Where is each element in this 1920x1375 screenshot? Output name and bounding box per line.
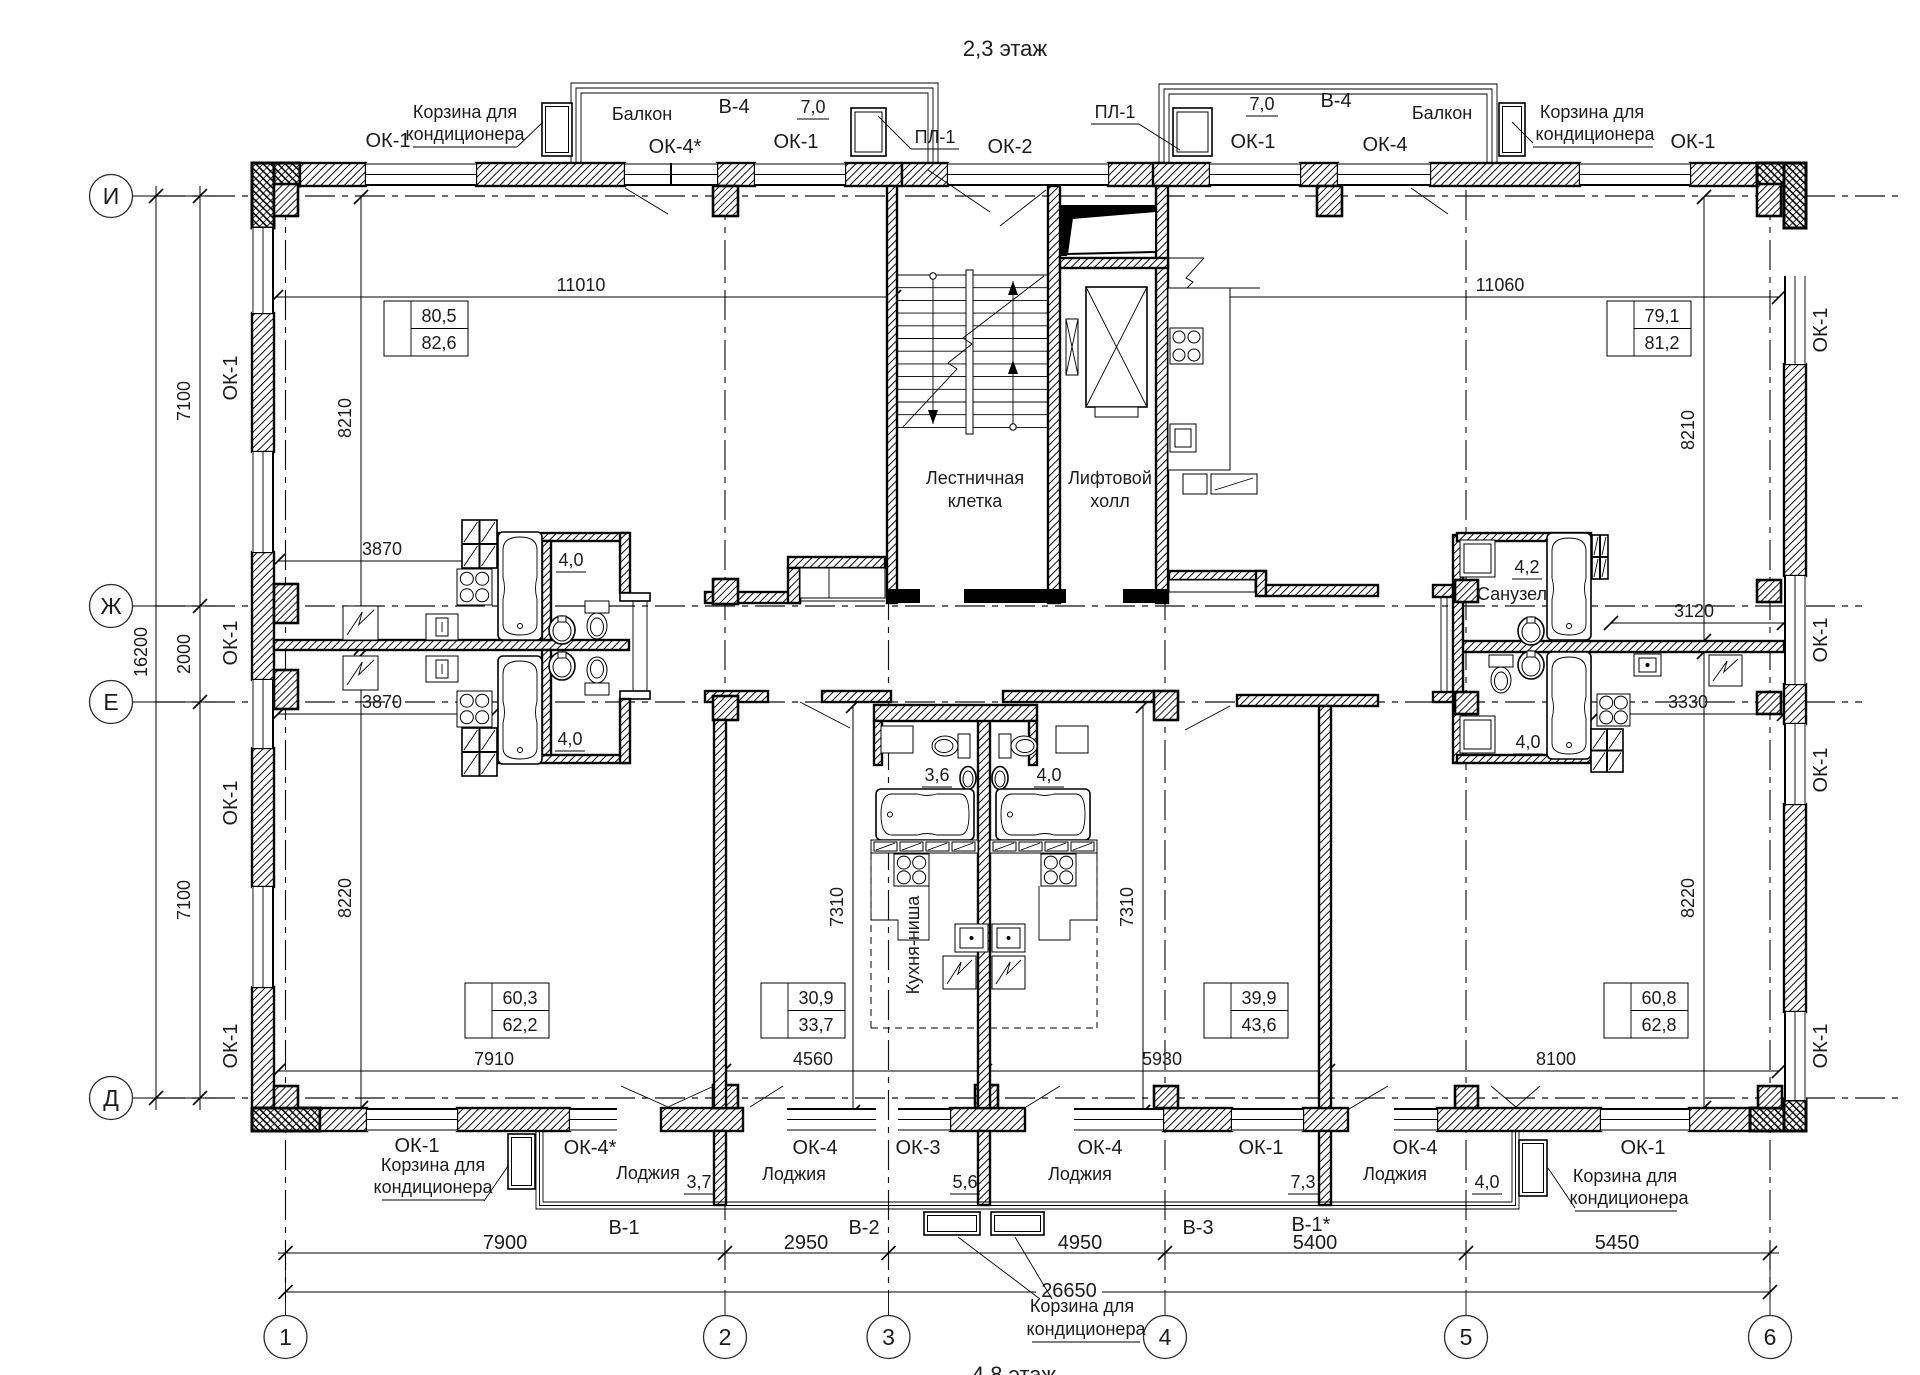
shower tray upper right	[1460, 540, 1495, 577]
opening mark bottom right of axis3	[1026, 1086, 1060, 1107]
left cluster top thin wall	[498, 533, 629, 541]
washbasin upper left	[549, 616, 575, 644]
dim line 7910/4560/5930/8100	[278, 1070, 1779, 1072]
balcony top-right outline	[1159, 84, 1497, 163]
staircase break line	[902, 276, 1044, 428]
svg-text:Кухня-ниша: Кухня-ниша	[903, 895, 923, 995]
counter band under baths right	[990, 840, 1097, 853]
svg-text:Лоджия: Лоджия	[1048, 1164, 1112, 1184]
leader basket bottom-right	[1548, 1168, 1575, 1208]
svg-text:60,8: 60,8	[1641, 988, 1676, 1008]
right outer wall band	[1784, 163, 1806, 228]
axis line 5 (vertical)	[1465, 190, 1467, 1290]
svg-text:ОК-4*: ОК-4*	[564, 1137, 617, 1159]
kitchen sink center-right	[992, 924, 1025, 952]
axis circle Е	[133, 701, 157, 703]
svg-text:ОК-1: ОК-1	[1810, 308, 1832, 353]
area stamp 39,9/43,6	[1204, 983, 1288, 1038]
svg-text:ОК-1: ОК-1	[1671, 131, 1716, 153]
svg-text:В-2: В-2	[848, 1217, 879, 1239]
svg-text:4,0: 4,0	[1474, 1172, 1499, 1192]
kitchen cabinet small	[1183, 474, 1207, 494]
dim 11060 line	[1163, 296, 1779, 298]
svg-text:ОК-4: ОК-4	[1363, 134, 1408, 156]
divider wall center loggia part	[978, 1131, 990, 1205]
svg-text:кондиционера: кондиционера	[1027, 1319, 1147, 1339]
svg-text:Санузел: Санузел	[1477, 584, 1547, 604]
window OK-1 bottom-right	[1601, 1108, 1689, 1131]
hall pilaster axis4 E	[1154, 691, 1178, 720]
door swing E right	[1185, 706, 1230, 730]
right cluster pilaster Zh	[1455, 580, 1478, 602]
kitchen sink right apartment	[1170, 424, 1196, 452]
dimension chain left: 16200 line	[155, 186, 157, 1110]
svg-text:7310: 7310	[827, 887, 847, 927]
svg-text:клетка: клетка	[948, 491, 1004, 511]
svg-text:Д: Д	[103, 1085, 119, 1111]
kitchen niche dashed boundary right	[1096, 854, 1098, 1028]
svg-text:3: 3	[882, 1324, 895, 1350]
left cluster bath wall top	[542, 541, 551, 640]
opening mark below left balcony end	[928, 170, 990, 212]
svg-text:Лоджия: Лоджия	[1363, 1164, 1427, 1184]
svg-text:И: И	[103, 183, 120, 209]
right cluster pilaster E	[1455, 692, 1478, 714]
axis line 3 (vertical)	[888, 190, 890, 1290]
window OK-1 right wall 1	[1784, 276, 1806, 364]
axis line D	[155, 1097, 1898, 1099]
kitchen cabinets lower left	[462, 728, 497, 776]
hall wall E right segment 2	[1237, 695, 1378, 706]
svg-text:Балкон: Балкон	[612, 104, 672, 124]
svg-text:8210: 8210	[335, 398, 355, 438]
axis line Zh	[155, 605, 1862, 607]
cabinets lower right	[1591, 729, 1623, 772]
bathtub upper left	[498, 532, 542, 640]
svg-text:3870: 3870	[362, 539, 402, 559]
svg-text:ОК-1: ОК-1	[220, 1024, 242, 1069]
elevator shaft top wedge	[1061, 205, 1156, 256]
toilet right cluster	[1489, 655, 1513, 667]
opening mark bottom axis2 V-left	[621, 1086, 668, 1107]
svg-text:Лоджия: Лоджия	[762, 1164, 826, 1184]
svg-text:79,1: 79,1	[1644, 306, 1679, 326]
svg-text:8220: 8220	[335, 878, 355, 918]
svg-text:16200: 16200	[131, 627, 151, 677]
window OK-1 under left balcony	[755, 163, 845, 186]
left cluster right wall cap bottom	[620, 691, 650, 699]
window OK-1 bottom center-right	[1232, 1108, 1303, 1131]
stove center-left	[894, 854, 929, 886]
svg-text:ОК-2: ОК-2	[988, 136, 1033, 158]
fridge right cluster	[1709, 655, 1742, 686]
fridge center-right	[992, 956, 1025, 989]
right cluster door jamb	[1440, 597, 1442, 691]
leader PL-1 right	[1139, 124, 1180, 150]
pilaster axis2 top	[713, 186, 738, 216]
svg-text:ОК-1: ОК-1	[1810, 748, 1832, 793]
central wall right (Zh-E)	[1457, 641, 1784, 652]
air-conditioner basket box top-left	[542, 103, 572, 156]
window OK-4 bottom 3	[1074, 1108, 1163, 1131]
right cluster bottom thin wall	[1457, 755, 1591, 763]
bathtub center-left	[876, 789, 974, 840]
air-conditioner basket below loggia 2	[991, 1212, 1044, 1235]
svg-text:62,8: 62,8	[1641, 1015, 1676, 1035]
shower tray center-right	[1056, 726, 1088, 753]
svg-text:4,2: 4,2	[1514, 557, 1539, 577]
window OK-1 left wall 2	[252, 452, 274, 552]
counter center-right	[1039, 853, 1097, 940]
kitchen cabinets upper left	[462, 520, 497, 568]
left outer wall band	[252, 163, 274, 228]
svg-text:Корзина для: Корзина для	[413, 102, 517, 122]
svg-text:7100: 7100	[174, 381, 194, 421]
svg-text:ОК-4: ОК-4	[1078, 1137, 1123, 1159]
svg-text:ОК-1: ОК-1	[220, 781, 242, 826]
window OK-1 left wall 3	[252, 680, 274, 748]
svg-text:ОК-1: ОК-1	[774, 131, 819, 153]
svg-text:80,5: 80,5	[421, 306, 456, 326]
svg-text:4950: 4950	[1058, 1232, 1103, 1254]
center cluster right return	[1029, 721, 1037, 765]
svg-text:60,3: 60,3	[502, 988, 537, 1008]
PL-1 slab box left	[851, 108, 886, 156]
hall wall right upper (Zh)	[1169, 571, 1266, 580]
counter center-left	[871, 853, 929, 940]
left cluster right wall bottom	[620, 699, 630, 763]
svg-text:8210: 8210	[1678, 410, 1698, 450]
hall wall E left segment 2	[822, 691, 891, 702]
svg-text:3,7: 3,7	[686, 1172, 711, 1192]
svg-text:Корзина для: Корзина для	[1540, 102, 1644, 122]
svg-text:11010: 11010	[557, 275, 606, 295]
leader to basket top-right	[1512, 122, 1533, 143]
svg-text:ОК-1: ОК-1	[395, 1135, 440, 1157]
svg-text:39,9: 39,9	[1241, 988, 1276, 1008]
svg-text:2,3 этаж: 2,3 этаж	[963, 36, 1048, 61]
pilaster top right-center	[1317, 186, 1342, 216]
svg-text:ОК-4: ОК-4	[793, 1137, 838, 1159]
area stamp 30,9/33,7	[761, 983, 845, 1038]
window OK-2 top-center	[948, 163, 1108, 186]
svg-text:8220: 8220	[1678, 878, 1698, 918]
left cluster bath wall bottom	[542, 650, 551, 755]
wall stub right cluster E	[1433, 692, 1457, 702]
washbasin center-right	[992, 767, 1008, 790]
divider wall axis2 loggia part	[714, 1131, 726, 1205]
svg-text:3330: 3330	[1668, 692, 1708, 712]
elevator car	[1086, 287, 1147, 407]
dim 3870 upper	[278, 560, 493, 562]
right cluster top thin wall	[1457, 533, 1591, 541]
svg-text:7100: 7100	[174, 880, 194, 920]
svg-text:кондиционера: кондиционера	[1536, 124, 1656, 144]
svg-text:В-3: В-3	[1182, 1217, 1213, 1239]
svg-text:8100: 8100	[1536, 1049, 1576, 1069]
svg-text:Лестничная: Лестничная	[926, 468, 1024, 488]
bathtub center-right	[996, 789, 1090, 840]
stove center-right	[1041, 854, 1076, 886]
balcony top-left outline	[571, 83, 938, 163]
svg-text:2: 2	[719, 1324, 732, 1350]
window OK-4 top-right	[1338, 163, 1430, 186]
svg-text:ОК-1: ОК-1	[1810, 1024, 1832, 1069]
air-conditioner basket bottom-left	[508, 1134, 535, 1189]
right cluster left wall	[1453, 535, 1463, 763]
svg-text:3870: 3870	[362, 692, 402, 712]
kitchen counter right of elevator	[1168, 257, 1204, 259]
svg-text:62,2: 62,2	[502, 1015, 537, 1035]
svg-text:В-4: В-4	[718, 96, 749, 118]
svg-text:Лифтовой: Лифтовой	[1068, 468, 1152, 488]
area stamp 60,8/62,8	[1604, 983, 1688, 1038]
svg-text:1: 1	[279, 1324, 292, 1350]
washing machine lower	[426, 656, 458, 682]
svg-text:В-1: В-1	[608, 1217, 639, 1239]
svg-text:кондиционера: кондиционера	[1570, 1188, 1690, 1208]
svg-text:кондиционера: кондиционера	[374, 1177, 494, 1197]
air-conditioner basket bottom-right	[1519, 1140, 1547, 1196]
hall wall E left segment 1	[705, 691, 768, 702]
dimension chain bottom: 7900/2950/4950/5400/5450	[278, 1252, 1779, 1254]
window OK-4* top	[625, 163, 717, 186]
staircase flight arrow down	[930, 273, 936, 279]
dim 3120	[1611, 622, 1784, 624]
area stamp 80,5/82,6	[384, 301, 468, 356]
area stamp 60,3/62,2	[465, 983, 549, 1038]
left cluster door jamb	[632, 601, 634, 691]
fridge lower left apartment	[343, 656, 378, 690]
window OK-4* bottom	[570, 1108, 617, 1131]
svg-text:ОК-3: ОК-3	[896, 1137, 941, 1159]
hall wall right lower (Zh)	[1266, 585, 1378, 596]
staircase treads	[897, 275, 1048, 427]
svg-text:2950: 2950	[784, 1232, 829, 1254]
leader to basket top-left	[517, 122, 543, 147]
opening mark top right balcony	[1411, 188, 1448, 214]
shower tray center-left	[881, 726, 913, 753]
washbasin center-left	[960, 767, 976, 790]
divider wall center (V-2/V-3)	[978, 719, 990, 1108]
staircase center rail	[966, 270, 973, 434]
svg-text:7,3: 7,3	[1290, 1172, 1315, 1192]
svg-text:5: 5	[1460, 1324, 1473, 1350]
svg-text:4,0: 4,0	[1036, 765, 1061, 785]
bathtub upper right	[1547, 533, 1591, 640]
bathtub lower right	[1547, 652, 1591, 759]
svg-text:5450: 5450	[1595, 1232, 1640, 1254]
axis line E	[155, 701, 1862, 703]
dimension chain bottom: 26650	[286, 1291, 1037, 1293]
washing machine upper	[426, 614, 458, 640]
svg-text:7310: 7310	[1117, 887, 1137, 927]
leader basket bottom-left	[484, 1166, 508, 1201]
svg-text:5930: 5930	[1142, 1049, 1182, 1069]
svg-text:ОК-4: ОК-4	[1393, 1137, 1438, 1159]
axis circle И	[133, 195, 157, 197]
vent shaft left wall	[788, 568, 800, 603]
staircase bottom wall segments	[887, 589, 920, 603]
pilaster axis2 bottom	[713, 1085, 738, 1108]
kitchen niche dashed boundary left	[870, 854, 872, 1028]
pilaster right wall E	[1757, 692, 1781, 714]
loggia outer boundary	[536, 1131, 1519, 1209]
center cluster top wall	[874, 705, 1037, 721]
svg-text:ОК-1: ОК-1	[1621, 1137, 1666, 1159]
svg-text:ПЛ-1: ПЛ-1	[1095, 102, 1136, 122]
window OK-1 right wall 2	[1784, 576, 1806, 684]
axis circle 2	[704, 1316, 747, 1359]
svg-text:7,0: 7,0	[1249, 94, 1274, 114]
pilaster axis3 bottom	[975, 1085, 998, 1108]
axis circle Ж	[133, 605, 157, 607]
hall wall E right segment 1	[1003, 691, 1154, 702]
door swing E left	[800, 702, 850, 728]
window OK-4 bottom 2	[787, 1108, 876, 1131]
dim 8220 left	[360, 655, 362, 1108]
divider wall axis2	[714, 720, 726, 1108]
bathtub lower left	[498, 656, 542, 764]
hall wall right step	[1256, 571, 1266, 596]
elevator car door	[1095, 407, 1138, 417]
svg-text:Е: Е	[103, 689, 118, 715]
window OK-1 right wall 3	[1784, 724, 1806, 804]
axis line 6 (vertical)	[1769, 190, 1771, 1290]
svg-text:30,9: 30,9	[798, 988, 833, 1008]
pilaster bottom-left corner	[274, 1086, 298, 1108]
kitchen sink right cluster	[1634, 654, 1661, 676]
hall pilaster axis2 Zh	[713, 579, 738, 604]
svg-text:Лоджия: Лоджия	[616, 1163, 680, 1183]
window OK-1 bottom-left	[367, 1108, 457, 1131]
top-right corner pilaster	[1757, 184, 1781, 216]
toilet center-left	[932, 734, 970, 758]
svg-text:7900: 7900	[483, 1232, 528, 1254]
pilaster axis4 bottom	[1154, 1086, 1178, 1108]
svg-text:4560: 4560	[793, 1049, 833, 1069]
svg-text:ПЛ-1: ПЛ-1	[915, 127, 956, 147]
svg-text:4,0: 4,0	[558, 550, 583, 570]
axis circle 3	[867, 1316, 910, 1359]
svg-text:3120: 3120	[1674, 601, 1714, 621]
axis line 1 (vertical)	[285, 190, 287, 1290]
axis line 4 (vertical)	[1164, 190, 1166, 1290]
svg-text:6: 6	[1764, 1324, 1777, 1350]
opening mark top-left	[625, 188, 668, 214]
dim 8210 left	[360, 197, 362, 648]
axis circle 4	[1144, 1316, 1187, 1359]
washbasin lower right	[1518, 651, 1544, 679]
elevator right wall	[1156, 186, 1168, 603]
svg-text:В-1*: В-1*	[1292, 1214, 1331, 1236]
pilaster right wall Zh	[1757, 580, 1781, 602]
svg-text:81,2: 81,2	[1644, 333, 1679, 353]
svg-text:кондиционера: кондиционера	[406, 124, 526, 144]
hall wall left (Zh)	[705, 592, 800, 603]
PL-1 slab box right	[1173, 108, 1212, 156]
window OK-3 bottom	[898, 1108, 950, 1131]
top-left corner pilaster	[274, 184, 298, 216]
axis line 2 (vertical)	[724, 190, 726, 1290]
stove upper left apartment	[457, 569, 492, 605]
washbasin upper right	[1518, 617, 1544, 645]
svg-text:4: 4	[1159, 1324, 1172, 1350]
dim 3330	[1597, 713, 1784, 715]
stove lower left apartment	[457, 691, 492, 727]
pilaster axis5 bottom	[1455, 1086, 1478, 1108]
svg-text:ОК-1: ОК-1	[220, 621, 242, 666]
dim 8220 right	[1703, 652, 1705, 1108]
svg-text:Корзина для: Корзина для	[1030, 1296, 1134, 1316]
wall stub right cluster Zh	[1433, 585, 1457, 597]
opening mark bottom center	[750, 1086, 783, 1107]
kitchen sink center-left	[955, 924, 988, 952]
svg-text:Корзина для: Корзина для	[381, 1155, 485, 1175]
leader PL-1 left	[878, 116, 911, 149]
top outer wall band	[252, 163, 300, 186]
divider wall V-3/V-1* loggia part	[1319, 1131, 1331, 1205]
cabinets right of upper bath	[1592, 535, 1608, 579]
window OK-1 top-left	[366, 163, 476, 186]
window OK-1 left wall 1	[252, 228, 274, 313]
window OK-4 bottom 4	[1394, 1108, 1437, 1131]
svg-text:ОК-4*: ОК-4*	[649, 136, 702, 158]
stove right apartment	[1170, 328, 1203, 364]
opening mark bottom axis5	[1491, 1086, 1516, 1107]
pilaster axis6 bottom corner	[1758, 1086, 1782, 1108]
elevator shaft division wall	[1060, 258, 1168, 268]
svg-text:4,0: 4,0	[1515, 732, 1540, 752]
svg-text:ОК-1: ОК-1	[366, 130, 411, 152]
svg-text:Корзина для: Корзина для	[1573, 1166, 1677, 1186]
axis line I (horizontal)	[155, 195, 1898, 197]
dim 8210 right	[1703, 197, 1705, 641]
left cluster bottom thin wall	[498, 755, 629, 763]
svg-text:33,7: 33,7	[798, 1015, 833, 1035]
svg-text:5,6: 5,6	[952, 1172, 977, 1192]
dim 7310 left	[852, 706, 854, 1112]
divider wall V-3/V-1*	[1319, 706, 1331, 1108]
window OK-1 under right balcony	[1210, 163, 1300, 186]
stove right cluster	[1597, 694, 1630, 726]
air-conditioner basket box top-right	[1499, 103, 1525, 156]
window OK-1 left wall 4	[252, 887, 274, 987]
fridge center-left	[943, 956, 976, 989]
svg-text:7,0: 7,0	[800, 97, 825, 117]
opening mark right of OK-2	[1000, 190, 1046, 226]
svg-text:2000: 2000	[174, 634, 194, 674]
svg-text:В-4: В-4	[1320, 90, 1351, 112]
pilaster left wall E	[274, 670, 298, 709]
dim 11010 line	[276, 296, 894, 298]
toilet upper left	[585, 601, 609, 613]
vent shaft top wall left	[788, 557, 885, 568]
svg-text:Балкон: Балкон	[1412, 103, 1472, 123]
air-conditioner basket below loggia 1	[924, 1212, 980, 1235]
svg-text:7910: 7910	[474, 1049, 514, 1069]
svg-text:ОК-1: ОК-1	[220, 356, 242, 401]
shower tray lower right	[1460, 716, 1495, 753]
dim 3870 lower	[278, 713, 493, 715]
dim 7310 right	[1142, 706, 1144, 1112]
staircase flight arrow up	[1010, 424, 1016, 430]
svg-text:ОК-1: ОК-1	[1231, 131, 1276, 153]
axis circle Д	[133, 1097, 157, 1099]
svg-text:4,0: 4,0	[557, 729, 582, 749]
window OK-1 right wall 4	[1784, 1012, 1806, 1100]
counter band under baths left	[871, 840, 978, 853]
